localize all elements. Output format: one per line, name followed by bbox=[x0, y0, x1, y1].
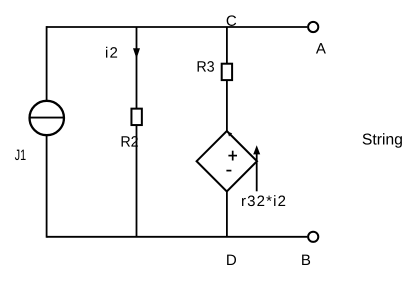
wire right vertical (R3 / source branch) bbox=[226, 27, 228, 237]
resistor R3 bbox=[222, 64, 232, 80]
label R3 bbox=[198, 61, 214, 72]
label R2 bbox=[122, 136, 138, 146]
label J1 bbox=[15, 150, 26, 160]
label r32*i2 bbox=[242, 195, 285, 206]
terminal B bbox=[308, 232, 318, 242]
wire left vertical upper bbox=[46, 26, 48, 101]
label i2 bbox=[106, 47, 117, 58]
controlled voltage source diamond bbox=[197, 131, 257, 191]
current arrow i2 bbox=[133, 48, 140, 58]
label C bbox=[227, 15, 237, 26]
wire left vertical lower bbox=[46, 135, 48, 238]
resistor R2 bbox=[131, 109, 141, 125]
wire middle vertical (R2 branch) bbox=[136, 27, 138, 237]
label A bbox=[316, 43, 326, 53]
current source J1 bbox=[29, 101, 65, 135]
control arrow r32*i2 bbox=[253, 145, 260, 191]
wire bottom horizontal D-row bbox=[47, 236, 308, 238]
label D bbox=[227, 255, 236, 265]
terminal A bbox=[308, 22, 318, 32]
label String bbox=[363, 133, 402, 148]
wire top horizontal C-row bbox=[47, 26, 308, 28]
label B bbox=[302, 255, 310, 265]
